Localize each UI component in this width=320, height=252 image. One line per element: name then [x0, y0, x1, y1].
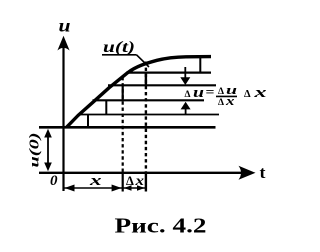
staircase tick 1 — [87, 115, 89, 128]
down arrow (delta-u marker top) — [184, 67, 186, 80]
svg-text:t: t — [260, 163, 267, 182]
svg-text:u: u — [193, 85, 204, 101]
svg-text:x: x — [253, 85, 267, 101]
staircase tick 5 (under plateau) — [199, 58, 201, 73]
u(t) curve — [67, 57, 212, 128]
u(0) dimension double arrow — [47, 133, 49, 166]
svg-text:Δ: Δ — [185, 90, 191, 100]
t axis (horizontal) — [39, 172, 242, 174]
up arrow (delta-u marker bottom) — [185, 108, 187, 114]
x dimension line below axis — [64, 187, 146, 189]
dashed vertical line at x+dx — [145, 62, 147, 173]
arrowhead left at dash1 — [124, 185, 132, 191]
svg-text:x: x — [88, 173, 102, 189]
u(0) level line (bottom thick horizontal) — [39, 126, 216, 129]
t axis arrowhead — [239, 166, 256, 180]
dashed vertical line at x — [122, 77, 124, 172]
arrowhead right at dash1 — [112, 185, 122, 192]
svg-text:Δ: Δ — [126, 174, 134, 188]
horizontal level line 1 — [126, 71, 211, 73]
formula: fraction bar — [216, 95, 237, 97]
staircase tick 3 — [122, 85, 124, 100]
arrowhead right at dash2 — [137, 185, 145, 191]
svg-text:x: x — [134, 173, 144, 188]
u axis arrowhead — [57, 36, 69, 51]
svg-text:=: = — [206, 84, 215, 99]
svg-text:u(0): u(0) — [27, 133, 42, 168]
svg-text:u: u — [59, 16, 71, 36]
dashed line 2 lower bar — [145, 174, 147, 192]
staircase tick 4 — [145, 73, 147, 86]
svg-text:x: x — [225, 94, 235, 108]
u(t) underline — [102, 54, 137, 56]
u axis (vertical) — [62, 45, 64, 191]
staircase tick 2 — [105, 100, 107, 114]
arrowhead left at axis — [65, 185, 75, 192]
svg-text:Δ: Δ — [218, 87, 224, 97]
horizontal level line 2 — [108, 84, 216, 86]
dashed line 1 lower bar — [122, 174, 124, 192]
svg-text:Рис. 4.2: Рис. 4.2 — [115, 214, 207, 238]
svg-text:Δ: Δ — [244, 89, 251, 100]
u(t) pointer line — [137, 55, 150, 67]
horizontal level line 3 — [93, 99, 205, 101]
svg-text:0: 0 — [50, 173, 58, 189]
horizontal level line 4 — [78, 114, 219, 116]
svg-text:u(t): u(t) — [103, 39, 135, 56]
svg-text:Δ: Δ — [218, 98, 224, 108]
